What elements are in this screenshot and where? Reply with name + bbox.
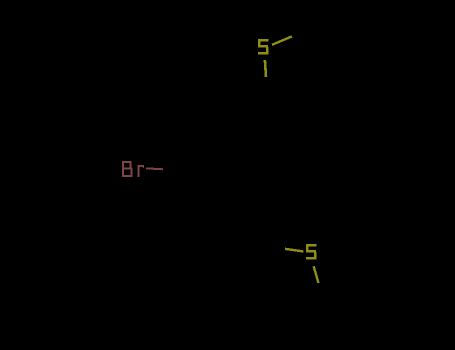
bond S2-C5' half-bond (bottom thiophene, left stub) <box>285 249 304 252</box>
bond S1-C5 half-bond (top thiophene, upper right stub) <box>272 36 292 44</box>
atom label S2 (bottom thiophene sulfur) <box>306 244 317 259</box>
atom label Br (bromine) <box>122 161 144 177</box>
bond C-Br half-bond (horizontal stub) <box>146 168 163 169</box>
atom label S1 (top thiophene sulfur) <box>258 39 269 54</box>
bond S2-C2' half-bond (bottom thiophene, lower right stub) <box>314 266 319 283</box>
bond S1-C2 half-bond (top thiophene, vertical stub) <box>265 60 266 77</box>
